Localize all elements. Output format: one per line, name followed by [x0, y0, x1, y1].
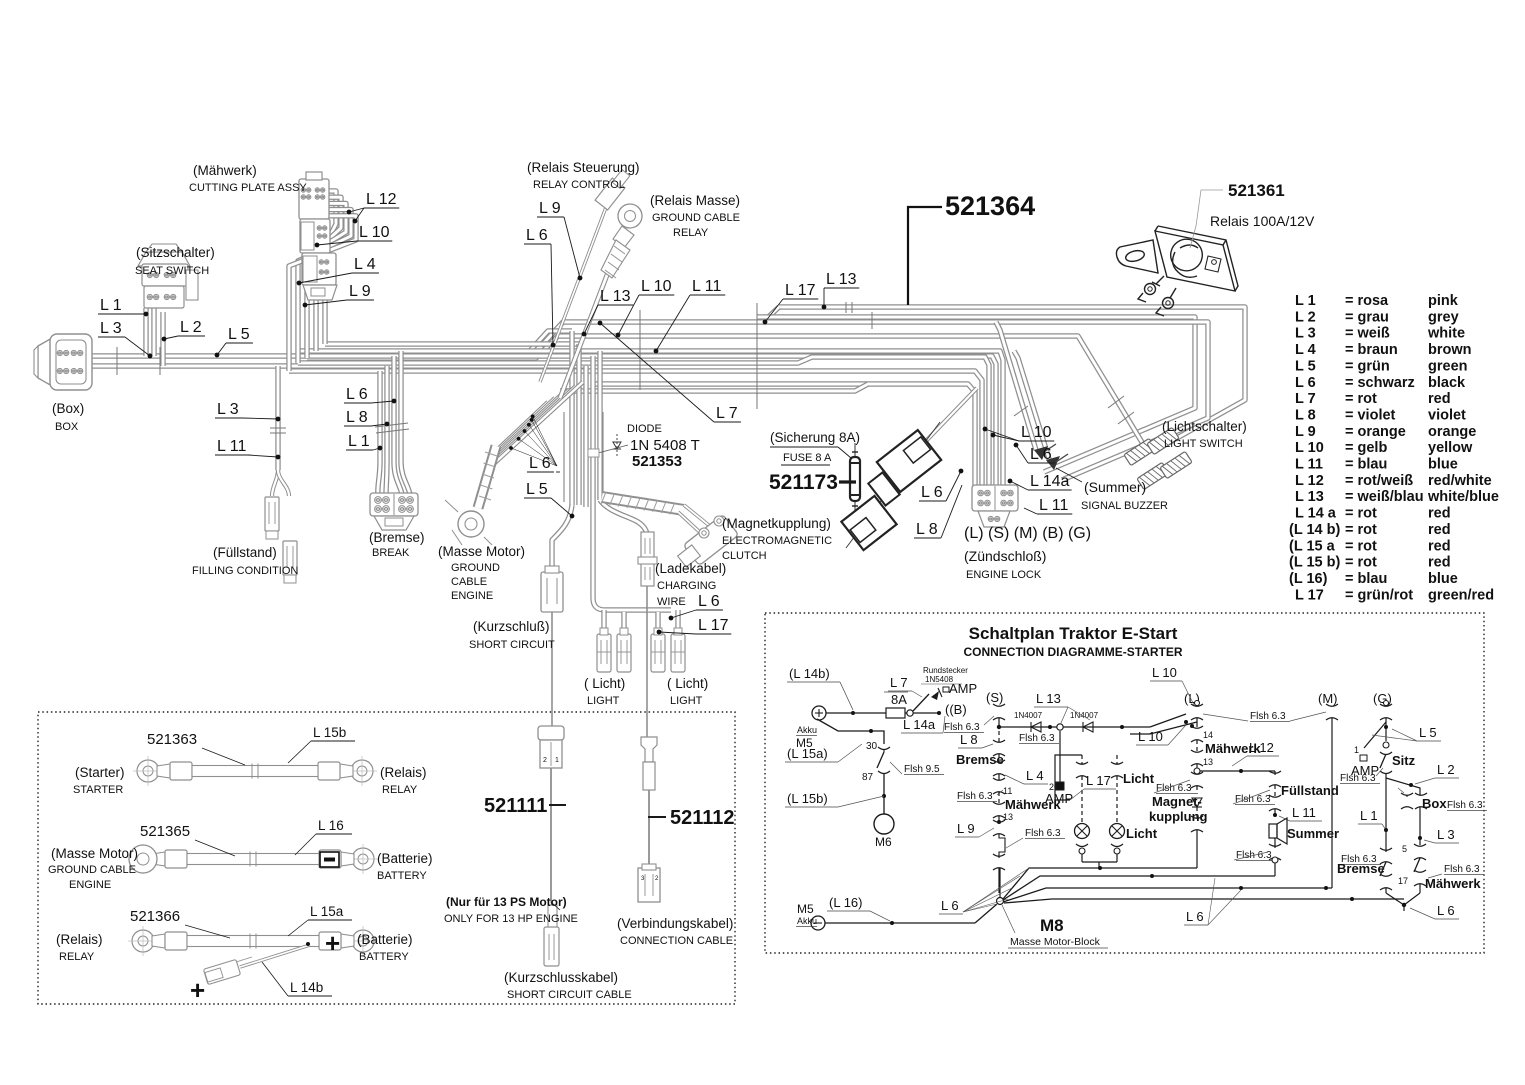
svg-text:14: 14 [1203, 730, 1213, 740]
svg-text:1: 1 [555, 757, 559, 764]
connector charging wire [641, 532, 654, 586]
wire light 1a [601, 610, 606, 634]
svg-text:(Relais Steuerung): (Relais Steuerung) [527, 160, 640, 175]
connector relay control plug [595, 178, 625, 210]
wire y363 step to ignition [298, 357, 989, 487]
connector engine lock (Zuendschloss) [972, 485, 1018, 511]
svg-text:Sitz: Sitz [1392, 753, 1416, 768]
bundle sleeve right [602, 412, 604, 502]
svg-text:(S): (S) [986, 690, 1003, 705]
svg-text:L 17: L 17 [785, 282, 816, 299]
bus S to L [999, 726, 1150, 728]
svg-text:(G): (G) [1373, 691, 1392, 706]
svg-text:L 8: L 8 [346, 409, 368, 426]
svg-text:L 5: L 5 [1419, 725, 1437, 740]
svg-text:= rot: = rot [1345, 555, 1377, 571]
svg-text:L 9: L 9 [1295, 424, 1316, 440]
svg-text:L 10: L 10 [1295, 440, 1324, 456]
lamp connectors (Licht) [597, 634, 611, 672]
svg-text:(Batterie): (Batterie) [377, 851, 433, 866]
fuse 8A capsule [854, 443, 856, 512]
svg-text:CONNECTION DIAGRAMME-STARTER: CONNECTION DIAGRAMME-STARTER [963, 645, 1182, 659]
svg-text:(Masse Motor): (Masse Motor) [438, 544, 525, 559]
svg-text:L 7: L 7 [716, 405, 738, 422]
svg-text:L 9: L 9 [957, 821, 975, 836]
sleeve hatching [601, 492, 606, 504]
svg-text:Mähwerk: Mähwerk [1425, 876, 1481, 891]
svg-text:grey: grey [1428, 309, 1459, 325]
svg-text:= rot: = rot [1345, 538, 1377, 554]
wire L3/L11 to filling condition [275, 366, 280, 470]
svg-text:violet: violet [1428, 407, 1466, 423]
wire bundle 5 [597, 351, 602, 500]
svg-text:SIGNAL BUZZER: SIGNAL BUZZER [1081, 500, 1168, 512]
svg-text:521112: 521112 [670, 807, 735, 829]
svg-text:Licht: Licht [1123, 771, 1155, 786]
svg-text:Akku: Akku [797, 916, 817, 926]
svg-text:L 5: L 5 [228, 326, 250, 343]
svg-text:L 6: L 6 [941, 898, 959, 913]
svg-text:8A: 8A [891, 692, 907, 707]
svg-text:Flsh 6.3: Flsh 6.3 [1340, 773, 1376, 784]
svg-text:(L 15 a: (L 15 a [1289, 538, 1336, 554]
svg-text:L 11: L 11 [1295, 457, 1323, 473]
svg-text:CUTTING PLATE ASSY: CUTTING PLATE ASSY [189, 182, 307, 194]
svg-text:(L 16): (L 16) [1289, 571, 1328, 587]
svg-text:M5: M5 [797, 902, 814, 916]
buzzer terminals [1034, 446, 1048, 460]
wire seat switch down [151, 308, 156, 356]
svg-text:= weiß: = weiß [1345, 326, 1390, 342]
svg-text:blue: blue [1428, 457, 1458, 473]
svg-text:L 14a: L 14a [903, 717, 936, 732]
svg-text:L 7: L 7 [1295, 391, 1316, 407]
wire bus y366 from box into bundle [85, 363, 586, 368]
svg-text:L 12: L 12 [1295, 473, 1324, 489]
connector box [38, 338, 52, 386]
electromagnetic clutch sleeve [602, 497, 684, 510]
leader dot cable3 [306, 942, 310, 946]
wire ground-engine strand 6 [487, 382, 583, 470]
svg-text:L 10: L 10 [641, 278, 672, 295]
svg-text:+: + [190, 975, 205, 1005]
light switch terminals [1124, 438, 1156, 465]
connector cutting plate assy (Maehwerk) [299, 179, 329, 219]
wire bremse L1 [378, 371, 380, 495]
wire charging thin link [646, 586, 648, 737]
svg-text:SHORT CIRCUIT: SHORT CIRCUIT [469, 639, 555, 651]
svg-text:STARTER: STARTER [73, 784, 123, 796]
svg-text:L 14 a: L 14 a [1295, 506, 1337, 522]
svg-text:DIODE: DIODE [627, 423, 662, 435]
battery plus node M5 [812, 706, 826, 720]
1 AMP stub [1364, 722, 1386, 748]
svg-text:521173: 521173 [769, 471, 838, 494]
svg-text:SHORT CIRCUIT CABLE: SHORT CIRCUIT CABLE [507, 989, 632, 1001]
svg-text:= violet: = violet [1345, 407, 1396, 423]
svg-text:(Box): (Box) [52, 401, 84, 416]
svg-text:L 10: L 10 [1152, 665, 1177, 680]
svg-text:red/white: red/white [1428, 473, 1492, 489]
svg-text:Bremse: Bremse [956, 752, 1004, 767]
svg-text:L 12: L 12 [366, 191, 397, 208]
svg-text:(Sicherung 8A): (Sicherung 8A) [770, 430, 860, 445]
svg-text:SEAT SWITCH: SEAT SWITCH [135, 265, 209, 277]
wire battery down to switch [817, 719, 884, 744]
svg-text:Bremse: Bremse [1337, 861, 1385, 876]
svg-text:GROUND CABLE: GROUND CABLE [652, 212, 740, 224]
ground cable engine sleeve [478, 446, 496, 508]
tick bus y307 [845, 302, 847, 313]
wire ground-engine strand 3 [493, 394, 562, 458]
svg-text:( Licht): ( Licht) [584, 676, 625, 691]
svg-text:Füllstand: Füllstand [1281, 783, 1339, 798]
svg-text:ENGINE: ENGINE [69, 879, 111, 891]
svg-text:red: red [1428, 391, 1451, 407]
svg-text:(Relais): (Relais) [56, 932, 103, 947]
wire buzzer 1 [996, 322, 1036, 450]
wire ground-engine strand 2 [495, 398, 555, 454]
svg-text:L 17: L 17 [698, 617, 729, 634]
svg-text:ENGINE LOCK: ENGINE LOCK [966, 569, 1042, 581]
cable 521365 ground-battery [132, 848, 154, 870]
motor M6 [874, 814, 894, 834]
svg-text:ONLY FOR 13 HP ENGINE: ONLY FOR 13 HP ENGINE [444, 913, 578, 925]
svg-text:2: 2 [543, 757, 547, 764]
svg-text:30: 30 [866, 741, 878, 752]
svg-text:black: black [1428, 375, 1466, 391]
svg-text:= gelb: = gelb [1345, 440, 1387, 456]
svg-text:L 14b: L 14b [290, 980, 323, 995]
wire chicane into y307 [762, 307, 779, 323]
wire bus y322 chicane [541, 322, 1208, 480]
svg-text:(Mähwerk): (Mähwerk) [193, 163, 257, 178]
wire bundle 3 [583, 366, 588, 507]
svg-text:RELAY: RELAY [59, 951, 95, 963]
svg-text:L 2: L 2 [180, 319, 202, 336]
svg-text:5: 5 [1402, 844, 1407, 854]
svg-text:L 8: L 8 [960, 732, 978, 747]
pulse symbol [999, 834, 1005, 858]
svg-text:L 13: L 13 [600, 288, 631, 305]
svg-text:(Masse Motor): (Masse Motor) [51, 846, 138, 861]
svg-text:BOX: BOX [55, 421, 79, 433]
svg-text:L 10: L 10 [1138, 729, 1163, 744]
svg-text:L 1: L 1 [348, 433, 370, 450]
svg-text:CHARGING: CHARGING [657, 580, 716, 592]
svg-text:kupplung: kupplung [1149, 809, 1208, 824]
svg-text:blue: blue [1428, 571, 1458, 587]
part number 521364 bracket [908, 207, 942, 305]
buzzer Summer symbol [1269, 824, 1277, 838]
svg-text:1: 1 [1354, 745, 1359, 755]
relay 100A/12V illustration [1116, 226, 1238, 316]
part 521112 connection cable [641, 737, 657, 762]
tick bus y317 [871, 312, 873, 329]
svg-text:L 11: L 11 [1292, 805, 1316, 820]
svg-text:L 3: L 3 [100, 320, 122, 337]
svg-text:CONNECTION CABLE: CONNECTION CABLE [620, 935, 733, 947]
svg-text:L 3: L 3 [217, 401, 239, 418]
wire bus y358-336 to light switch [307, 336, 1143, 444]
svg-text:Box: Box [1422, 796, 1447, 811]
svg-text:521361: 521361 [1228, 181, 1285, 200]
svg-text:= rosa: = rosa [1345, 293, 1389, 309]
svg-text:= weiß/blau: = weiß/blau [1345, 489, 1424, 505]
wire maehwerk L9 branch 5 [289, 216, 356, 371]
L17 wire from lamps [1055, 755, 1082, 800]
svg-text:L 11: L 11 [692, 278, 721, 295]
wire L13 top bus y307 [779, 307, 1245, 452]
diode symbol [616, 434, 618, 456]
svg-text:Masse Motor-Block: Masse Motor-Block [1010, 936, 1101, 948]
wire bremse L6 [394, 356, 402, 495]
svg-text:L 13: L 13 [826, 271, 857, 288]
diode 1N4007 a [1030, 722, 1032, 732]
svg-text:L 13: L 13 [1295, 489, 1324, 505]
wire bremse L8 [386, 366, 387, 495]
svg-text:((B): ((B) [945, 702, 967, 717]
connector clutch plate [683, 514, 738, 565]
clamp tick x117 [116, 347, 118, 375]
diagonal plug upper [846, 422, 940, 548]
wire clutch 1 [684, 505, 711, 527]
diagonal plug middle [868, 472, 899, 505]
diagonal plug lower [841, 496, 896, 550]
svg-text:(Batterie): (Batterie) [357, 932, 413, 947]
wire bundle 4 [590, 356, 595, 507]
svg-text:ENGINE: ENGINE [451, 590, 493, 602]
wire bus y344 into bundle [325, 341, 579, 346]
svg-text:(Zündschloß): (Zündschloß) [964, 548, 1046, 564]
clamp tick x160 [159, 347, 161, 375]
svg-text:L 6: L 6 [1295, 375, 1316, 391]
svg-text:L 8: L 8 [1295, 407, 1316, 423]
svg-text:L 4: L 4 [354, 256, 376, 273]
svg-text:L 1: L 1 [1295, 293, 1316, 309]
svg-text:L 15b: L 15b [313, 725, 346, 740]
svg-text:L 10: L 10 [1021, 424, 1052, 441]
svg-text:L 4: L 4 [1295, 342, 1316, 358]
svg-text:yellow: yellow [1428, 440, 1473, 456]
svg-text:LIGHT: LIGHT [587, 695, 620, 707]
svg-text:L 17: L 17 [1086, 773, 1111, 788]
wire bus y356 from box [85, 356, 996, 487]
svg-text:FILLING CONDITION: FILLING CONDITION [192, 565, 298, 577]
tick filling wire [270, 427, 286, 429]
S column down [998, 731, 1000, 742]
svg-text:L 4: L 4 [1026, 768, 1044, 783]
svg-text:(Lichtschalter): (Lichtschalter) [1162, 419, 1247, 434]
svg-text:L 15a: L 15a [310, 904, 344, 919]
svg-text:13: 13 [1203, 757, 1213, 767]
svg-text:(L 15a): (L 15a) [787, 746, 828, 761]
svg-text:Flsh 6.3: Flsh 6.3 [1444, 864, 1480, 875]
right branch L2/Box/L3 [1386, 778, 1420, 795]
svg-text:= grau: = grau [1345, 309, 1389, 325]
wire charging [600, 500, 647, 566]
ground hub and rails [997, 898, 1004, 905]
svg-text:white: white [1427, 326, 1465, 342]
wire buzzer 2 [1014, 351, 1050, 462]
svg-text:green: green [1428, 358, 1468, 374]
svg-text:Mähwerk: Mähwerk [1005, 797, 1061, 812]
wire bus y371 [289, 371, 982, 487]
svg-text:L 10: L 10 [359, 224, 390, 241]
svg-text:Flsh 9.5: Flsh 9.5 [904, 764, 940, 775]
svg-text:87: 87 [862, 772, 874, 783]
wire bus y317 [757, 317, 1195, 472]
svg-text:1N 5408 T: 1N 5408 T [630, 437, 700, 454]
svg-text:(Summer): (Summer) [1084, 479, 1146, 495]
part 521111 short circuit cable [538, 726, 564, 740]
ring terminal ground cable relay [618, 204, 642, 228]
svg-text:= blau: = blau [1345, 571, 1387, 587]
svg-text:white/blue: white/blue [1427, 489, 1499, 505]
svg-text:(L 15 b): (L 15 b) [1289, 555, 1340, 571]
svg-text:CLUTCH: CLUTCH [722, 550, 767, 562]
svg-text:L 11: L 11 [217, 438, 246, 455]
svg-text:17: 17 [1398, 876, 1408, 886]
svg-text:521366: 521366 [130, 908, 180, 925]
svg-text:BATTERY: BATTERY [359, 951, 409, 963]
svg-text:L 6: L 6 [529, 455, 551, 472]
branch to Fuellstand [1200, 770, 1275, 772]
svg-text:= grün: = grün [1345, 358, 1390, 374]
diode 1N5408 symbol [931, 691, 939, 700]
svg-text:GROUND: GROUND [451, 562, 500, 574]
wire bus y331 into bundle [528, 331, 572, 353]
svg-text:L 6: L 6 [698, 593, 720, 610]
svg-text:RELAY: RELAY [673, 227, 709, 239]
svg-text:L 13: L 13 [1036, 691, 1061, 706]
wire light distribution [593, 507, 671, 610]
svg-text:521364: 521364 [945, 191, 1035, 221]
svg-text:(Relais Masse): (Relais Masse) [650, 193, 740, 208]
svg-text:Flsh 6.3: Flsh 6.3 [957, 791, 993, 802]
svg-text:Rundstecker: Rundstecker [923, 666, 968, 675]
svg-text:BREAK: BREAK [372, 547, 410, 559]
svg-text:green/red: green/red [1428, 587, 1494, 603]
svg-text:L 11: L 11 [1039, 497, 1068, 514]
svg-text:521365: 521365 [140, 823, 190, 840]
svg-text:L 6: L 6 [1030, 446, 1052, 463]
wire y391 short [560, 384, 868, 391]
connector seat switch [138, 252, 190, 266]
lamp bottoms join [1082, 861, 1117, 863]
svg-text:= rot: = rot [1345, 506, 1377, 522]
svg-text:Flsh 6.3: Flsh 6.3 [1019, 733, 1055, 744]
svg-text:521111: 521111 [484, 795, 547, 817]
wire to AMP diode [913, 694, 929, 711]
svg-text:521363: 521363 [147, 731, 197, 748]
clamp tick x640 [639, 310, 641, 390]
svg-text:L 17: L 17 [1295, 587, 1324, 603]
svg-text:(Verbindungskabel): (Verbindungskabel) [617, 916, 733, 931]
dashed box schematic [765, 613, 1484, 953]
svg-text:red: red [1428, 506, 1451, 522]
cable 521363 starter-relay [137, 760, 159, 782]
svg-text:= orange: = orange [1345, 424, 1406, 440]
wire bus y351 to ignition pin [296, 351, 1003, 487]
Box connector pair [1401, 793, 1413, 809]
svg-text:Flsh 6.3: Flsh 6.3 [1235, 794, 1271, 805]
svg-text:1N4007: 1N4007 [1014, 711, 1043, 720]
wire ground-engine strand 4 [491, 390, 569, 462]
svg-text:(Starter): (Starter) [75, 765, 125, 780]
svg-text:1N4007: 1N4007 [1070, 711, 1099, 720]
wire clutch 2 [678, 512, 704, 536]
terminal (B) [937, 711, 941, 715]
svg-text:L 6: L 6 [1186, 909, 1204, 924]
svg-text:(M): (M) [1318, 691, 1338, 706]
svg-text:RELAY: RELAY [382, 784, 418, 796]
svg-text:L 3: L 3 [1437, 827, 1455, 842]
branch wire with spade terminal [240, 945, 310, 967]
wire battery to B [826, 712, 940, 714]
svg-text:WIRE: WIRE [657, 596, 686, 608]
wire maehwerk L4 branch 4 [298, 210, 351, 363]
svg-text:L 9: L 9 [349, 283, 371, 300]
cable 521366 relay-battery [132, 930, 154, 952]
svg-text:Flsh 6.3: Flsh 6.3 [1025, 828, 1061, 839]
wire light 2a [655, 612, 660, 634]
svg-text:= braun: = braun [1345, 342, 1398, 358]
svg-text:RELAY CONTROL: RELAY CONTROL [533, 179, 625, 191]
tick bremse bundle [375, 423, 408, 427]
leader 521361 [1190, 190, 1223, 248]
svg-text:L 5: L 5 [526, 481, 548, 498]
connector brake [370, 493, 418, 516]
svg-text:L 7: L 7 [890, 675, 908, 690]
svg-text:(Bremse): (Bremse) [369, 530, 425, 545]
svg-text:(Kurzschluß): (Kurzschluß) [473, 619, 550, 634]
svg-text:(Füllstand): (Füllstand) [213, 545, 277, 560]
wire maehwerk L12 branch 2 [316, 197, 341, 351]
svg-text:L 6: L 6 [1437, 903, 1455, 918]
svg-text:L 6: L 6 [346, 386, 368, 403]
dashed box cable kit [38, 712, 735, 1004]
svg-text:+: + [325, 928, 340, 958]
svg-text:L 6: L 6 [921, 484, 943, 501]
wire light 1b [621, 612, 626, 634]
svg-text:AMP: AMP [949, 681, 977, 696]
svg-text:brown: brown [1428, 342, 1472, 358]
svg-text:= rot/weiß: = rot/weiß [1345, 473, 1413, 489]
svg-text:= rot: = rot [1345, 522, 1377, 538]
svg-text:(L 14b): (L 14b) [789, 666, 830, 681]
svg-text:L 12: L 12 [1249, 740, 1274, 755]
svg-text:(Magnetkupplung): (Magnetkupplung) [722, 516, 831, 531]
svg-text:(Relais): (Relais) [380, 765, 427, 780]
svg-text:L 14a: L 14a [1030, 473, 1070, 490]
svg-text:Akku: Akku [797, 725, 817, 735]
wire short circuit branch [552, 505, 572, 572]
L fan to left bus [1130, 722, 1197, 734]
wire maehwerk L12 branch 1 [325, 191, 336, 344]
rails from hub [1003, 868, 1197, 899]
svg-text:red: red [1428, 538, 1451, 554]
svg-text:(L 14 b): (L 14 b) [1289, 522, 1340, 538]
wire ground cable relay [560, 262, 612, 398]
svg-text:11: 11 [1003, 786, 1012, 796]
svg-text:521353: 521353 [632, 453, 682, 470]
svg-text:( Licht): ( Licht) [667, 676, 708, 691]
wire seat switch L1 [143, 308, 148, 356]
fuse 8A [886, 708, 905, 718]
svg-text:M6: M6 [875, 835, 892, 849]
svg-text:LIGHT SWITCH: LIGHT SWITCH [1164, 438, 1243, 450]
